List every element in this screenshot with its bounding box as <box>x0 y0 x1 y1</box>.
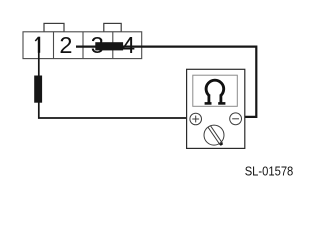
svg-text:4: 4 <box>122 32 135 58</box>
svg-text:SL-01578: SL-01578 <box>245 164 294 179</box>
svg-text:2: 2 <box>59 32 72 58</box>
